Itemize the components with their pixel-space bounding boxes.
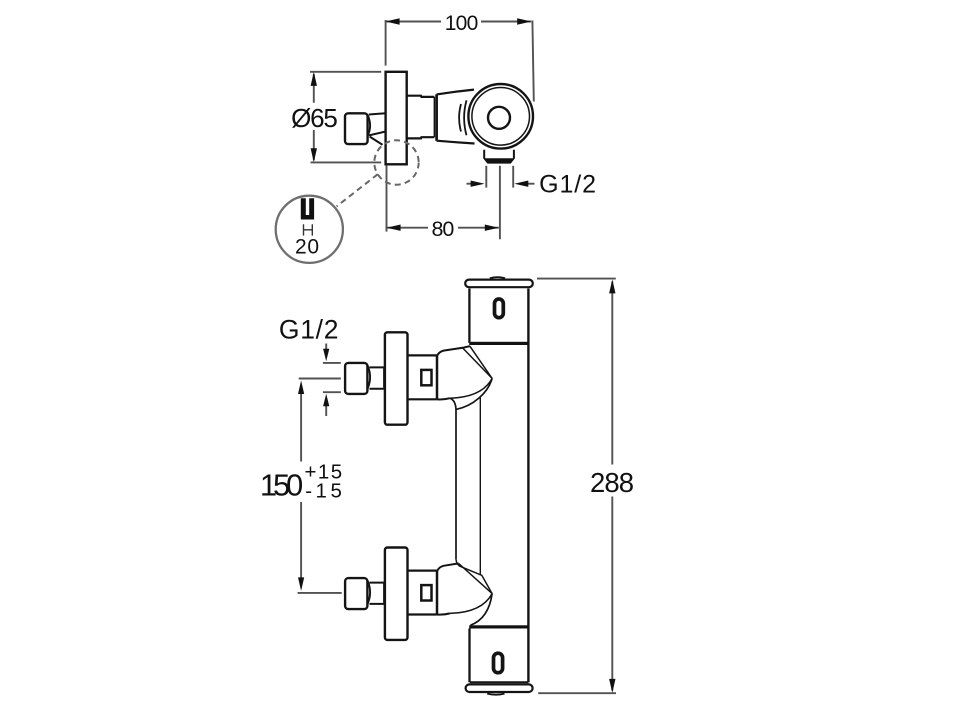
- svg-text:150: 150: [260, 467, 303, 502]
- svg-text:100: 100: [445, 12, 479, 35]
- svg-text:20: 20: [295, 236, 319, 259]
- svg-text:G1/2: G1/2: [539, 170, 596, 198]
- svg-text:-15: -15: [305, 479, 342, 502]
- svg-text:288: 288: [590, 467, 634, 498]
- svg-text:80: 80: [431, 217, 454, 241]
- svg-text:G1/2: G1/2: [279, 315, 339, 345]
- svg-text:Ø65: Ø65: [291, 103, 338, 133]
